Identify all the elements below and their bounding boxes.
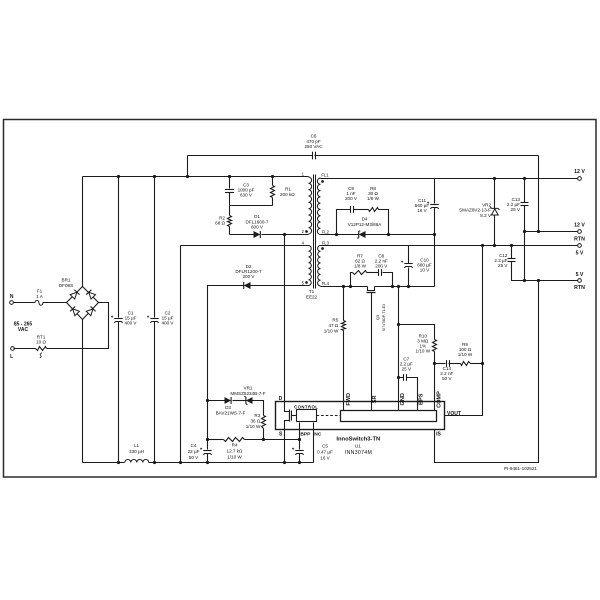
svg-text:VAC: VAC	[18, 327, 29, 333]
svg-text:1/10 W: 1/10 W	[416, 348, 431, 353]
wire C3 bottom to R1 bottom	[230, 205, 273, 207]
junction pin-4 rail bottom	[179, 461, 182, 464]
resistor R1 200kohm	[272, 177, 274, 186]
junction R10 tap on GND line	[397, 323, 400, 326]
wire D2 anode to D3 line	[208, 286, 245, 401]
junction R9 on VOUT line	[481, 362, 484, 365]
svg-text:EE22: EE22	[306, 294, 318, 299]
junction C13 bottom 12V RTN	[523, 230, 526, 233]
svg-text:D3: D3	[225, 405, 231, 410]
wire FL1 12V line	[321, 178, 578, 180]
svg-text:FL2: FL2	[322, 229, 330, 234]
svg-text:L: L	[10, 354, 13, 360]
svg-text:12.7 kΩ: 12.7 kΩ	[227, 449, 244, 454]
wire D3 to VR1	[233, 400, 246, 402]
junction C13 top	[523, 177, 526, 180]
resistor R9 100ohm	[461, 362, 471, 366]
svg-text:RTN: RTN	[574, 236, 585, 242]
svg-text:12 V: 12 V	[574, 169, 585, 175]
junction snubber right on FL2	[387, 233, 390, 236]
svg-text:VR1: VR1	[244, 386, 253, 391]
wire D4 to C11 node	[366, 234, 435, 236]
svg-text:R3: R3	[254, 413, 260, 418]
wire C6 rail right	[315, 155, 539, 157]
svg-text:50 V: 50 V	[189, 455, 199, 460]
junction C7 tap on GND line	[397, 376, 400, 379]
svg-text:BAV21WS-7-F: BAV21WS-7-F	[216, 411, 246, 416]
wire ground rail left	[83, 462, 125, 464]
svg-text:SI7478DP-T1-E3: SI7478DP-T1-E3	[382, 304, 386, 331]
junction drain node	[283, 233, 286, 236]
svg-text:1/10 W: 1/10 W	[458, 352, 473, 357]
svg-text:5 V: 5 V	[576, 272, 584, 278]
snubber C9 R8 branch	[337, 210, 351, 235]
capacitor C1 15uF 400V	[118, 177, 120, 318]
junction GND tap	[397, 285, 400, 288]
svg-text:R4: R4	[232, 443, 238, 448]
svg-text:22 µF: 22 µF	[188, 449, 200, 454]
svg-text:INN3074M: INN3074M	[345, 450, 372, 456]
snubber R7 C8 branch	[351, 273, 353, 287]
capacitor C5 0.47uF 16V	[299, 430, 301, 450]
wire R4 to BPP	[245, 439, 300, 441]
capacitor C11 560uF 16V	[434, 179, 436, 204]
wire VOUT sense line	[445, 246, 483, 416]
junction R1 top	[271, 175, 274, 178]
svg-text:1/8 W: 1/8 W	[354, 263, 367, 268]
wire FL4 line left	[321, 286, 368, 288]
junction C6 branch	[186, 175, 189, 178]
diode D1 DFL1600-7 600V	[254, 231, 261, 238]
svg-text:FL4: FL4	[322, 281, 330, 286]
wire S pin to rail	[284, 430, 286, 463]
svg-text:FWD: FWD	[346, 393, 352, 406]
svg-text:InnoSwitch3-TN: InnoSwitch3-TN	[336, 437, 380, 443]
resistor R2 68ohm	[229, 206, 231, 216]
wire drain line to U1 D pin	[284, 235, 286, 402]
svg-text:47 Ω: 47 Ω	[328, 323, 338, 328]
junction D4 cathode C11	[433, 233, 436, 236]
wire IS pin route	[435, 281, 539, 463]
dashed link CONTROL to secondary	[317, 415, 341, 417]
svg-text:1/8 W: 1/8 W	[367, 196, 380, 201]
wire RT1 to bridge right vertex	[47, 303, 109, 349]
svg-text:630 V: 630 V	[240, 193, 253, 198]
wire Q3 gate to SR pin	[371, 293, 373, 411]
wire FL2 to D4	[321, 234, 359, 236]
junction C2 top	[153, 175, 156, 178]
U1 CONTROL block	[297, 410, 317, 422]
wire D2 to pin 5	[251, 285, 309, 287]
terminal 12V	[578, 177, 582, 181]
svg-text:200 V: 200 V	[375, 263, 388, 268]
wire CONTROL to BPP stub	[299, 423, 301, 430]
U1 secondary controller block	[341, 411, 437, 422]
wire CONTROL to NC stub	[313, 423, 315, 430]
wire GND pin line	[398, 287, 400, 411]
capacitor C6 470pF 250VAC	[312, 152, 314, 160]
junction RTN link bottom	[523, 279, 526, 282]
transformer T1 secondary winding FL3-FL4	[318, 246, 321, 287]
wire C6 rail left	[188, 155, 313, 157]
junction S pin bottom	[283, 461, 286, 464]
junction D3 line left	[206, 399, 209, 402]
svg-text:200 kΩ: 200 kΩ	[280, 192, 295, 197]
svg-text:16 V: 16 V	[417, 208, 427, 213]
svg-text:BPS: BPS	[418, 393, 424, 405]
capacitor C3 1000pF 630V	[229, 177, 231, 189]
svg-text:1/10 W: 1/10 W	[227, 455, 242, 460]
capacitor C2 15uF 400V	[154, 177, 156, 318]
junction R4 left	[206, 438, 209, 441]
wire C11 bottom to FL4 return	[434, 235, 436, 287]
svg-text:250 VAC: 250 VAC	[304, 144, 323, 149]
junction snubber right on FL4	[391, 285, 394, 288]
junction VR2 bottom	[493, 244, 496, 247]
transformer T1 secondary winding FL1-FL2	[317, 178, 320, 235]
svg-text:S: S	[279, 432, 283, 438]
svg-text:10 Ω: 10 Ω	[36, 340, 46, 345]
junction BPP R4	[298, 438, 301, 441]
junction snubber left on FL2	[335, 233, 338, 236]
wire C6 branch riser	[187, 156, 189, 177]
resistor R4 12.7kohm	[208, 439, 224, 441]
svg-text:C5: C5	[322, 444, 328, 449]
svg-text:BPP: BPP	[300, 431, 311, 437]
svg-text:Q3: Q3	[375, 314, 380, 320]
svg-text:200 V: 200 V	[242, 274, 255, 279]
svg-text:25 V: 25 V	[402, 367, 412, 372]
svg-text:DF08S: DF08S	[59, 283, 73, 288]
junction snubber left on FL4	[349, 285, 352, 288]
capacitor C13 2.2uF 25V	[524, 179, 526, 203]
resistor R3 36ohm	[262, 416, 266, 429]
terminal 12V RTN	[578, 230, 582, 234]
terminal 5V	[578, 244, 582, 248]
diode D2 DFLR1200-7 200V	[244, 282, 251, 289]
svg-text:RT1: RT1	[37, 334, 46, 339]
svg-text:200 V: 200 V	[345, 196, 358, 201]
phase dot FL1	[321, 180, 324, 183]
svg-text:FL3: FL3	[322, 241, 330, 246]
zener VR1 MMSZ5234B-7-F	[246, 397, 253, 404]
svg-text:NC: NC	[314, 431, 322, 437]
junction C1 top	[117, 175, 120, 178]
svg-text:COMP: COMP	[437, 391, 443, 408]
junction C12 top	[510, 244, 513, 247]
wire FL4 line right	[375, 286, 435, 288]
inductor L1 330uH	[125, 460, 149, 463]
phase dot FL3	[321, 247, 324, 250]
svg-text:SR: SR	[372, 395, 378, 403]
svg-text:PI-9461-102521: PI-9461-102521	[504, 466, 537, 471]
svg-text:400 V: 400 V	[161, 320, 174, 325]
phase dot primary pin 2	[305, 230, 308, 233]
bridge rectifier BR1 DF08S	[67, 287, 99, 320]
node N terminal	[10, 301, 14, 305]
resistor R10 3Mohm	[399, 325, 435, 340]
transformer T1 bias winding pins 4-5	[309, 246, 312, 286]
node L terminal	[11, 347, 15, 351]
junction C4 bottom	[206, 461, 209, 464]
svg-text:0.47 µF: 0.47 µF	[317, 450, 333, 455]
junction C2 bottom	[153, 461, 156, 464]
svg-text:CONTROL: CONTROL	[294, 405, 318, 410]
svg-text:12 V: 12 V	[574, 223, 585, 229]
junction IS riser on 5V RTN	[537, 279, 540, 282]
svg-text:10 V: 10 V	[420, 268, 430, 273]
wire ground rail right	[149, 462, 314, 464]
diode D3 BAV21WS-7-F	[225, 397, 232, 404]
svg-text:C4: C4	[191, 443, 197, 448]
junction C6 net on 12V RTN	[537, 230, 540, 233]
svg-text:600 V: 600 V	[251, 225, 264, 230]
svg-text:2: 2	[302, 229, 305, 234]
phase dot bias pin 5	[305, 281, 308, 284]
svg-text:FL1: FL1	[321, 173, 329, 178]
junction C5 bottom	[298, 461, 301, 464]
wire fuse to bridge left vertex	[43, 302, 67, 304]
resistor R5 47ohm FWD line	[343, 287, 345, 321]
svg-text:V12P12-M3/86A: V12P12-M3/86A	[348, 222, 383, 227]
wire VR1 to R3	[253, 401, 264, 416]
wire COMP pin line	[434, 364, 436, 411]
wire pin 4 lead	[181, 245, 309, 247]
svg-text:RTN: RTN	[574, 285, 585, 291]
junction 5V VOUT tap	[481, 244, 484, 247]
U1 internal MOSFET	[285, 402, 290, 412]
capacitor C7 2.2uF 25V	[399, 377, 404, 379]
svg-text:8.2 V: 8.2 V	[480, 213, 492, 218]
junction C1 bottom	[117, 461, 120, 464]
junction VR2 top	[493, 177, 496, 180]
svg-text:5: 5	[302, 280, 305, 285]
svg-text:R1: R1	[285, 187, 291, 192]
junction C3 top	[228, 175, 231, 178]
wire B+ rail	[83, 176, 309, 178]
op-amp U1 package outline	[276, 402, 445, 430]
svg-text:D: D	[279, 396, 283, 402]
junction C10 bottom	[407, 285, 410, 288]
wire to D3	[208, 400, 225, 402]
svg-text:C6: C6	[311, 134, 317, 139]
transformer T1 primary winding pins 1-2	[309, 177, 312, 234]
svg-text:330 µH: 330 µH	[129, 449, 144, 454]
svg-text:4: 4	[302, 241, 305, 246]
capacitor C10 680uF 10V	[408, 246, 410, 264]
transformer T1 core	[313, 175, 315, 289]
wire C6 net riser	[538, 156, 540, 232]
svg-text:36 Ω: 36 Ω	[250, 419, 260, 424]
svg-text:400 V: 400 V	[124, 320, 137, 325]
border frame	[4, 120, 597, 478]
svg-text:R5: R5	[332, 318, 338, 323]
capacitor C14 2.2nF 50V	[435, 363, 446, 365]
wire bridge top to B+ rail	[82, 177, 84, 287]
svg-text:1/10 W: 1/10 W	[246, 424, 261, 429]
svg-text:5 V: 5 V	[576, 250, 584, 256]
fuse F1	[35, 300, 43, 305]
wire bridge bottom to ground rail	[82, 320, 84, 463]
svg-text:U1: U1	[355, 444, 361, 450]
svg-text:16 V: 16 V	[320, 456, 330, 461]
SR FET Q3 SI7478DP-T1-E3	[368, 287, 375, 291]
junction R3 bottom	[262, 438, 265, 441]
wire pin-4 return rail	[180, 246, 182, 463]
svg-text:MMSZ5234B-7-F: MMSZ5234B-7-F	[230, 391, 265, 396]
terminal 5V RTN	[578, 279, 582, 283]
wire L to RT1	[14, 348, 36, 350]
capacitor C12 2.2uF 25V	[511, 246, 513, 259]
junction FWD tap	[342, 285, 345, 288]
svg-text:25 V: 25 V	[511, 207, 521, 212]
svg-text:50 V: 50 V	[442, 376, 452, 381]
svg-text:470 pF: 470 pF	[306, 139, 320, 144]
wire rail to U1 right stub	[313, 430, 315, 463]
wire D1 to primary pin 2	[262, 234, 309, 236]
svg-text:GND: GND	[400, 393, 406, 405]
capacitor C4 22uF 50V	[207, 401, 209, 450]
wire 12V RTN line	[525, 231, 578, 233]
svg-text:25 V: 25 V	[498, 263, 508, 268]
wire FL3 5V line	[321, 245, 578, 247]
svg-text:1/10 W: 1/10 W	[324, 329, 339, 334]
thermistor RT1	[36, 347, 47, 351]
svg-text:IS: IS	[436, 432, 441, 438]
svg-text:1 A: 1 A	[36, 294, 44, 299]
zener VR2 SMAZ8V2-13-F	[494, 179, 496, 209]
junction COMP node	[433, 362, 436, 365]
svg-text:N: N	[10, 294, 14, 300]
wire N to fuse	[14, 302, 35, 304]
svg-text:68 Ω: 68 Ω	[215, 221, 225, 226]
wire R2 to D1	[230, 234, 254, 236]
wire RTN link 12V to 5V	[524, 232, 526, 281]
diode D4 V12P12-M3/86A	[359, 231, 366, 238]
svg-text:L1: L1	[134, 443, 140, 448]
